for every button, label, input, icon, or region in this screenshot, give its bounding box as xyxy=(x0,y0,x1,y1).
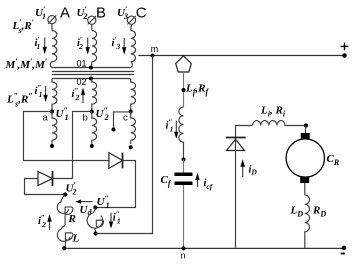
svg-text:Li, Ri: Li, Ri xyxy=(260,105,286,119)
current arrow i'3 xyxy=(122,38,126,55)
svg-text:R: R xyxy=(68,213,76,225)
terminal plus dot xyxy=(342,53,347,58)
svg-text:01: 01 xyxy=(77,59,87,69)
svg-text:i″1: i″1 xyxy=(113,210,121,226)
svg-text:RD: RD xyxy=(312,205,326,219)
wire xyxy=(304,183,306,195)
svg-text:U′2: U′2 xyxy=(77,5,88,21)
svg-text:CR: CR xyxy=(327,153,340,167)
node Lf xyxy=(182,88,186,92)
secondary winding b lower xyxy=(92,112,97,145)
wire D2 anode xyxy=(25,179,66,195)
svg-text:Lf,Rf: Lf,Rf xyxy=(185,83,210,97)
current arrow iD xyxy=(240,159,245,177)
primary winding A xyxy=(50,31,56,68)
svg-text:b: b xyxy=(83,113,88,124)
svg-text:LD: LD xyxy=(290,205,304,219)
current arrow i'1 xyxy=(43,38,47,55)
positive rail xyxy=(139,55,345,57)
node b xyxy=(90,110,94,114)
svg-text:U′1: U′1 xyxy=(35,5,46,21)
thyristor pentagon xyxy=(176,56,192,72)
terminal dot a lower xyxy=(50,144,54,148)
wire xyxy=(183,160,185,173)
svg-text:L″s,R″: L″s,R″ xyxy=(6,92,33,109)
wire box b xyxy=(73,112,92,179)
current arrow i''1 filter xyxy=(174,121,178,139)
node a xyxy=(50,110,54,114)
current arrow i''1 load xyxy=(109,213,113,229)
terminal A circle xyxy=(48,15,56,24)
primary winding B xyxy=(92,31,97,68)
motor brush bottom xyxy=(300,177,309,183)
current arrow icf xyxy=(195,173,199,187)
svg-text:L: L xyxy=(72,233,80,245)
wire m vertical xyxy=(96,56,153,234)
negative rail xyxy=(64,247,345,249)
secondary winding b upper xyxy=(92,79,97,112)
secondary star bus 02 xyxy=(52,78,131,80)
freewheel diode branch wire xyxy=(236,126,253,249)
svg-text:A: A xyxy=(60,5,70,22)
wire c tap xyxy=(114,112,131,129)
diode D2 xyxy=(38,171,53,186)
node U''1 xyxy=(93,205,97,209)
svg-text:i′3: i′3 xyxy=(112,35,121,51)
current arrow i''1 xyxy=(43,86,47,102)
svg-text:U″1: U″1 xyxy=(56,106,69,122)
wire xyxy=(91,24,93,30)
armature inductor Li,Ri xyxy=(253,121,306,126)
secondary winding a upper xyxy=(52,79,57,112)
diode D1 xyxy=(109,153,123,169)
filter inductor xyxy=(179,107,184,158)
svg-text:B: B xyxy=(96,5,106,22)
svg-text:L′s,R′: L′s,R′ xyxy=(12,18,34,35)
terminal B circle xyxy=(88,16,96,25)
svg-text:C: C xyxy=(136,5,147,22)
secondary winding c lower xyxy=(131,112,136,145)
label minus xyxy=(341,253,345,255)
svg-text:M′,M′,M′: M′,M′,M′ xyxy=(5,57,48,71)
node Cf top xyxy=(182,158,186,162)
node m xyxy=(151,54,155,58)
resistor R (arc symbol) xyxy=(57,195,73,225)
svg-text:m: m xyxy=(151,44,159,54)
wire xyxy=(130,24,133,30)
motor M circle xyxy=(286,139,324,177)
secondary winding a lower xyxy=(52,112,57,145)
svg-text:i″2: i″2 xyxy=(72,86,80,102)
current arrow i''2 xyxy=(81,88,85,104)
node load bottom xyxy=(62,246,66,250)
terminal dot b lower xyxy=(90,144,94,148)
secondary winding c upper xyxy=(131,79,136,112)
primary winding C xyxy=(131,31,136,68)
svg-text:c: c xyxy=(123,113,128,124)
svg-text:icf: icf xyxy=(204,178,214,191)
node 01 xyxy=(89,66,93,70)
inductor L (arc symbol) xyxy=(57,225,73,249)
svg-text:iD: iD xyxy=(249,165,258,177)
node motor top xyxy=(304,123,308,127)
label plus xyxy=(341,43,349,51)
svg-text:U′2: U′2 xyxy=(66,181,77,197)
wire xyxy=(305,126,307,134)
node 02 xyxy=(89,77,93,81)
terminal minus dot xyxy=(342,246,347,251)
terminal C circle xyxy=(127,16,135,25)
svg-text:U″2: U″2 xyxy=(96,106,109,122)
node n xyxy=(182,246,186,250)
wire xyxy=(51,24,53,31)
primary star bus 01 xyxy=(52,67,131,69)
current arrow i''2 load xyxy=(47,214,51,230)
svg-text:n: n xyxy=(181,250,186,260)
svg-text:i″1: i″1 xyxy=(35,83,43,99)
smoothing element (arc symbol) xyxy=(87,208,103,233)
wire D2 cathode xyxy=(52,178,72,180)
wire D1 cathode xyxy=(95,161,135,208)
wire Cf bottom xyxy=(183,185,185,248)
current arrow i'2 xyxy=(86,38,90,55)
motor brush top xyxy=(301,133,310,139)
svg-text:U″1: U″1 xyxy=(97,194,110,210)
node c xyxy=(129,110,133,114)
svg-text:i″2: i″2 xyxy=(38,213,46,229)
svg-text:i′1: i′1 xyxy=(35,35,41,51)
voltage arrow Ud xyxy=(76,200,93,204)
svg-text:Ud: Ud xyxy=(80,204,93,217)
svg-text:U′3: U′3 xyxy=(117,5,128,21)
terminal dot c lower xyxy=(129,145,133,149)
node element bottom xyxy=(94,231,98,235)
capacitor Cf xyxy=(175,173,193,186)
smoothing inductor LD xyxy=(305,195,310,248)
transformer core xyxy=(52,72,134,75)
svg-text:Cf: Cf xyxy=(161,174,172,188)
svg-text:a: a xyxy=(43,113,49,124)
node U'2 xyxy=(63,192,67,196)
wire box a xyxy=(24,112,109,161)
svg-text:i″1: i″1 xyxy=(166,118,174,134)
wire below pentagon xyxy=(183,72,185,107)
terminal dot c tap xyxy=(112,128,116,132)
svg-text:i′2: i′2 xyxy=(77,35,83,51)
freewheel diode xyxy=(226,138,246,151)
